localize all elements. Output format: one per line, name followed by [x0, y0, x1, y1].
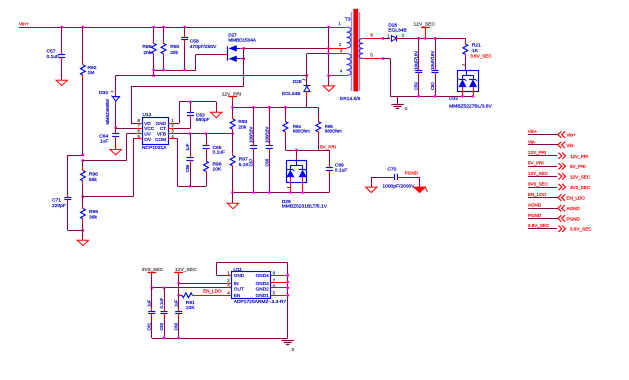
- zener diode D28: [282, 79, 310, 107]
- svg-text:100/16V: 100/16V: [264, 126, 269, 142]
- node VFB junctions: [189, 132, 192, 135]
- svg-text:MMBZ5227BL/3.6V: MMBZ5227BL/3.6V: [449, 104, 492, 110]
- svg-text:C59: C59: [414, 82, 419, 90]
- node clamp bus junctions: [152, 69, 155, 72]
- wire UV sense: [83, 160, 127, 162]
- svg-text:C68: C68: [264, 158, 269, 166]
- node secondary junctions: [382, 37, 385, 40]
- svg-text:C71: C71: [52, 198, 61, 204]
- node Vin+ junctions on rail: [60, 26, 63, 29]
- svg-text:U11: U11: [233, 267, 242, 273]
- capacitor C60 bottom: [174, 295, 183, 338]
- svg-text:10K: 10K: [213, 166, 222, 172]
- node AGND junctions: [231, 191, 234, 194]
- svg-text:EGL34B: EGL34B: [388, 27, 407, 33]
- transformer T3 primary winding: [346, 27, 351, 48]
- resistor R21: [463, 38, 481, 70]
- node 12V_SEC junctions: [417, 37, 420, 40]
- pin 5 T3: [363, 58, 383, 60]
- pin GND3 stub: [271, 282, 288, 284]
- svg-text:R89: R89: [142, 44, 151, 50]
- svg-text:PGND: PGND: [528, 213, 542, 218]
- transformer T3 core: [353, 9, 358, 92]
- svg-text:560pF: 560pF: [196, 117, 210, 123]
- svg-text:MMBD1504A: MMBD1504A: [228, 37, 257, 42]
- svg-text:0.1uF: 0.1uF: [159, 297, 164, 308]
- wire bottom ground rail: [152, 338, 288, 340]
- resistor R94: [283, 107, 310, 150]
- wire C70 left to AGND: [371, 177, 373, 187]
- svg-text:EN: EN: [234, 293, 241, 298]
- ground below C64: [110, 150, 121, 155]
- svg-text:1uF: 1uF: [174, 299, 179, 307]
- svg-text:0.1uF: 0.1uF: [335, 168, 348, 174]
- svg-text:VFB: VFB: [157, 132, 166, 137]
- svg-text:680Ohm: 680Ohm: [293, 129, 310, 134]
- capacitor C57: [47, 27, 66, 80]
- wire pin3 to D28 node: [307, 53, 329, 55]
- svg-text:1uF: 1uF: [147, 299, 152, 307]
- svg-text:5V_PRI: 5V_PRI: [570, 164, 586, 169]
- node COM rail junction: [189, 185, 192, 188]
- svg-text:GND2: GND2: [256, 286, 269, 291]
- power symbol 12V_SEC: [414, 22, 436, 39]
- svg-text:C58: C58: [190, 38, 199, 44]
- svg-text:1uF: 1uF: [100, 139, 108, 145]
- svg-text:MMSZ4688W: MMSZ4688W: [105, 99, 110, 125]
- node D27 anode junctions: [242, 47, 245, 50]
- svg-text:EN_LDO: EN_LDO: [203, 289, 222, 294]
- resistor R99: [81, 197, 99, 231]
- svg-text:GND: GND: [234, 273, 245, 278]
- power symbol 12V_PRI: [222, 91, 242, 107]
- capacitor C66: [185, 134, 194, 187]
- pin 6 T3: [363, 38, 383, 40]
- wire to C71: [68, 155, 83, 157]
- wire 12V_SEC col to R91: [178, 283, 180, 295]
- pin GND1 stub: [271, 295, 288, 297]
- wire 12V_PRI rail: [233, 107, 319, 109]
- resistor R91: [179, 293, 231, 311]
- svg-text:220pF: 220pF: [52, 203, 66, 209]
- transformer T3 aux winding: [346, 54, 351, 76]
- zener D32 MMBZ5227BL/3.6V: [449, 65, 492, 110]
- wire Vin+ rail: [19, 27, 329, 29]
- svg-text:D28: D28: [293, 79, 302, 85]
- svg-text:12V_PRI: 12V_PRI: [528, 150, 546, 155]
- svg-text:PGND: PGND: [405, 171, 419, 176]
- resistor R89: [142, 27, 156, 76]
- transformer T3 core lines: [351, 12, 353, 91]
- svg-text:EN_LDO: EN_LDO: [528, 192, 547, 197]
- node VCC junction: [114, 126, 117, 129]
- svg-text:AGND: AGND: [528, 203, 542, 208]
- svg-text:IN: IN: [234, 281, 239, 286]
- pin 2 T3: [329, 48, 347, 50]
- svg-text:10uF/16V: 10uF/16V: [430, 51, 435, 70]
- wire drain to transformer pin2: [244, 48, 329, 50]
- svg-text:C69: C69: [335, 162, 344, 168]
- wire CT pin2: [174, 128, 191, 130]
- ground PGND solid: [414, 187, 427, 192]
- svg-text:0.1uF: 0.1uF: [47, 54, 60, 60]
- pin GND4 stub: [271, 275, 288, 277]
- wire OUT line: [152, 287, 227, 289]
- svg-text:GND4: GND4: [256, 273, 269, 278]
- svg-text:0: 0: [405, 106, 408, 111]
- svg-text:UV: UV: [144, 132, 151, 137]
- wire COM rail: [178, 186, 207, 188]
- svg-text:3.6V_SEC: 3.6V_SEC: [470, 54, 492, 59]
- svg-text:12V_SEC: 12V_SEC: [414, 22, 436, 28]
- svg-text:CT: CT: [160, 126, 166, 131]
- svg-text:VD: VD: [144, 121, 151, 126]
- svg-text:EN_LDO: EN_LDO: [567, 196, 586, 201]
- capacitor C63: [187, 102, 210, 129]
- node IN junction: [177, 282, 180, 285]
- pin 1 T3: [329, 27, 347, 29]
- capacitor C69: [326, 150, 348, 193]
- svg-text:3.6V_SEC: 3.6V_SEC: [528, 223, 550, 228]
- svg-text:OUT: OUT: [234, 286, 244, 291]
- resistor R90: [161, 27, 179, 70]
- wire transformer left bus: [328, 27, 330, 76]
- svg-text:Vin+: Vin+: [567, 133, 577, 138]
- wire 5V_PRI node: [285, 150, 329, 152]
- svg-text:C61: C61: [147, 322, 152, 330]
- svg-text:12V_SEC: 12V_SEC: [528, 171, 549, 176]
- resistor R95: [316, 107, 342, 150]
- resistor R93: [230, 107, 247, 133]
- pin GND2 stub: [271, 287, 288, 289]
- ground below R99: [77, 240, 88, 245]
- svg-text:R98: R98: [89, 171, 98, 177]
- diode D26 EGL34B: [383, 22, 407, 41]
- svg-text:R97: R97: [239, 157, 248, 163]
- svg-text:AGND: AGND: [567, 206, 581, 211]
- svg-text:12V_SEC: 12V_SEC: [570, 174, 591, 179]
- svg-text:U12: U12: [142, 112, 151, 118]
- wire bus to D27 cathode: [195, 54, 197, 70]
- node GND/C63 junction: [189, 100, 192, 103]
- ground below transformer pin4: [328, 76, 330, 86]
- node bottom rail junctions: [163, 337, 166, 340]
- svg-text:EGL34B: EGL34B: [282, 91, 301, 97]
- svg-text:Vin+: Vin+: [19, 21, 29, 27]
- svg-text:COM: COM: [155, 137, 166, 142]
- svg-text:0.1uF: 0.1uF: [213, 150, 226, 156]
- svg-text:NCP1031A: NCP1031A: [142, 145, 167, 151]
- wire aux rail: [116, 75, 307, 77]
- capacitor C71: [52, 155, 83, 231]
- resistor R97: [230, 134, 249, 193]
- svg-text:100/16V: 100/16V: [249, 126, 254, 142]
- wire U12 GND pin1: [168, 123, 173, 125]
- node divider junctions: [82, 154, 85, 157]
- wire clamp bus: [154, 70, 196, 72]
- svg-text:470pF/250V: 470pF/250V: [190, 44, 217, 50]
- capacitor C58: [181, 27, 217, 70]
- capacitor C62: [159, 288, 168, 338]
- node transformer bus junctions: [327, 26, 330, 29]
- wire U11 right bus: [287, 263, 289, 339]
- svg-text:R21: R21: [472, 43, 481, 49]
- node secondary return junctions: [417, 95, 420, 98]
- ground below C57: [56, 80, 67, 85]
- svg-text:36k: 36k: [89, 215, 97, 221]
- resistor R92: [81, 27, 97, 155]
- svg-text:10uF/16V: 10uF/16V: [414, 51, 419, 70]
- wire OV sense: [83, 196, 133, 198]
- svg-text:20k: 20k: [170, 50, 178, 56]
- svg-text:3.6V_SEC: 3.6V_SEC: [570, 227, 592, 232]
- pin 3 T3: [329, 53, 347, 55]
- pin 4 T3: [329, 75, 347, 77]
- wire VCC to U12 pin7: [116, 128, 137, 130]
- svg-text:1M: 1M: [88, 70, 95, 76]
- wire R99 to ground: [82, 230, 84, 240]
- svg-text:R90: R90: [170, 44, 179, 50]
- ground AGND at C70: [366, 187, 377, 192]
- capacitor C67: [249, 107, 258, 192]
- svg-text:MMBZ5231BLT/5.1V: MMBZ5231BLT/5.1V: [282, 204, 328, 210]
- svg-text:3V3_SEC: 3V3_SEC: [528, 181, 549, 186]
- svg-text:55k: 55k: [89, 177, 97, 183]
- svg-text:3V3_SEC: 3V3_SEC: [570, 185, 591, 190]
- svg-text:680Ohm: 680Ohm: [325, 129, 342, 134]
- svg-text:R93: R93: [238, 119, 247, 125]
- svg-text:C64: C64: [99, 133, 108, 139]
- svg-text:OV: OV: [144, 137, 152, 142]
- node OUT junctions: [150, 286, 153, 289]
- wire VFB line: [168, 133, 173, 135]
- resistor R96: [204, 158, 222, 186]
- earth ground secondary: [391, 96, 408, 111]
- svg-text:20k: 20k: [238, 125, 246, 131]
- svg-text:C70: C70: [387, 166, 396, 172]
- svg-text:5V_PRI: 5V_PRI: [528, 161, 544, 166]
- node 5V_PRI junction: [295, 149, 298, 152]
- node aux rail junction: [306, 74, 309, 77]
- zener D29 MMBZ5231BLT/5.1V: [282, 150, 328, 210]
- svg-text:GND3: GND3: [256, 281, 269, 286]
- pin VD stub: [131, 123, 137, 125]
- capacitor C68: [264, 107, 273, 192]
- svg-text:ADP1720ARMZ-.3.3-R7: ADP1720ARMZ-.3.3-R7: [234, 299, 287, 305]
- svg-text:C66: C66: [185, 164, 190, 172]
- svg-text:0: 0: [292, 347, 295, 352]
- resistor R98: [81, 161, 99, 197]
- svg-text:D33: D33: [99, 90, 108, 96]
- svg-text:C60: C60: [430, 82, 435, 90]
- power symbol 3V3_SEC: [142, 267, 164, 288]
- svg-text:C57: C57: [47, 49, 56, 55]
- svg-text:C62: C62: [159, 322, 164, 330]
- capacitor C70: [371, 166, 419, 189]
- svg-text:1000pF/2000V: 1000pF/2000V: [382, 184, 415, 190]
- svg-text:1uF: 1uF: [185, 143, 190, 151]
- svg-text:20k: 20k: [143, 50, 151, 56]
- svg-text:Vin+: Vin+: [528, 129, 538, 134]
- svg-text:VCC: VCC: [144, 126, 155, 131]
- svg-text:PGND: PGND: [567, 216, 581, 221]
- svg-text:T3: T3: [345, 17, 351, 23]
- wire AGND rail: [233, 192, 330, 194]
- diode D27 dual MMBD1504A: [228, 33, 257, 62]
- wire C70 right to PGND: [419, 177, 421, 187]
- zener diode D33: [99, 76, 120, 128]
- capacitor C60: [430, 38, 439, 96]
- ground AGND: [232, 193, 234, 204]
- capacitor C61: [147, 288, 156, 338]
- node R91 junction: [177, 294, 180, 297]
- svg-text:Vin-: Vin-: [567, 143, 576, 148]
- transformer T3 secondary winding: [359, 38, 363, 58]
- svg-text:ER14.5/6: ER14.5/6: [340, 96, 361, 102]
- svg-text:10K: 10K: [186, 305, 195, 311]
- svg-text:C60: C60: [174, 322, 179, 330]
- wire U11 GND pin1 loop: [226, 275, 231, 277]
- earth ground LDO: [282, 341, 295, 352]
- capacitor C64: [99, 128, 119, 149]
- svg-text:R92: R92: [88, 65, 97, 71]
- svg-text:R99: R99: [89, 209, 98, 215]
- wire COM pin4: [168, 138, 173, 140]
- svg-text:C67: C67: [249, 158, 254, 166]
- svg-text:5V_PRI: 5V_PRI: [320, 144, 336, 149]
- wire IN line: [179, 283, 227, 285]
- capacitor C59: [414, 38, 423, 96]
- wire D27 anodes to drain net: [243, 48, 245, 86]
- power symbol 12V_SEC bottom: [174, 267, 197, 283]
- svg-text:Vin-: Vin-: [528, 139, 537, 144]
- capacitor C65: [203, 134, 226, 159]
- svg-text:GND: GND: [156, 121, 167, 126]
- svg-text:12V_PRI: 12V_PRI: [570, 154, 588, 159]
- ground right of U12: [216, 102, 218, 112]
- wire 12V_SEC rail: [400, 38, 465, 40]
- op-amp U11 ADP1720 body: [232, 267, 287, 305]
- op-amp U12 NCP1031A body: [142, 112, 169, 151]
- wire secondary return: [383, 58, 390, 60]
- node 12V_PRI junctions: [231, 106, 234, 109]
- svg-text:GND1: GND1: [256, 293, 269, 298]
